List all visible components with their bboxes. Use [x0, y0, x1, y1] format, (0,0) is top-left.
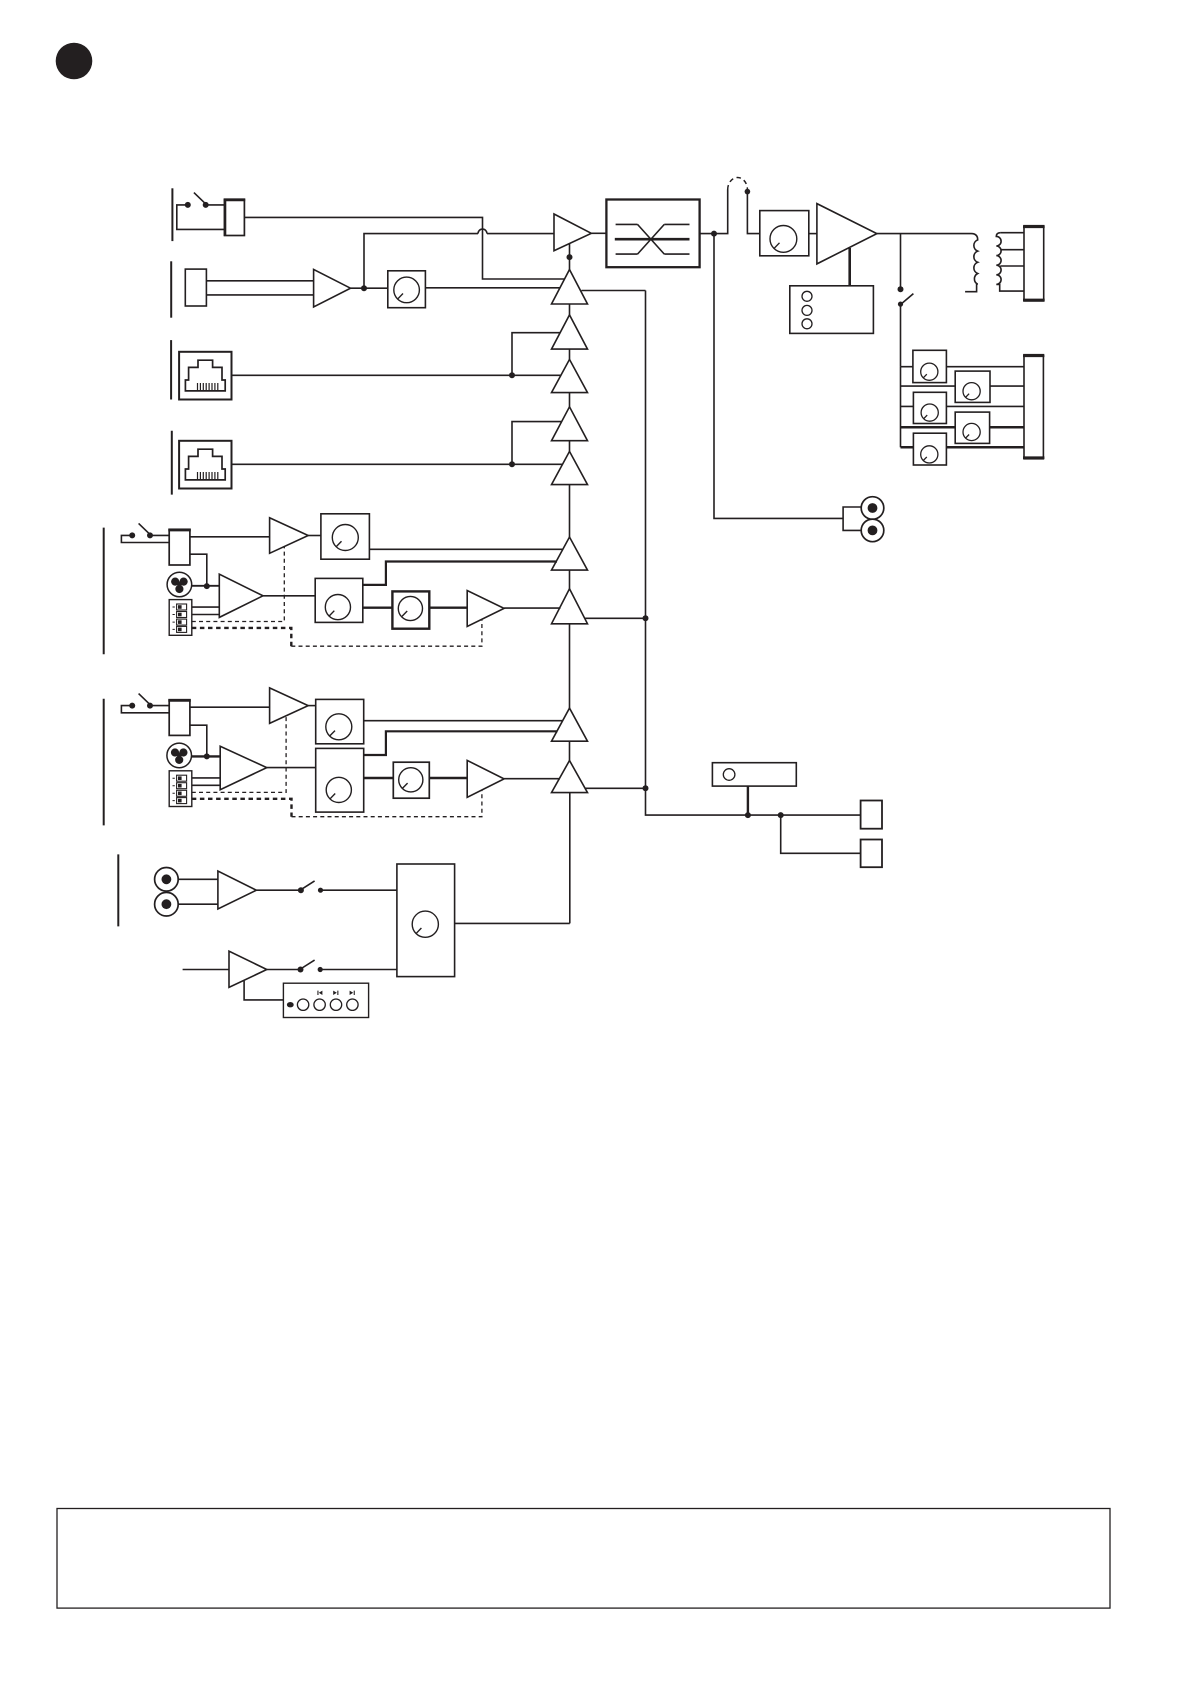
dip switch (mic2) [169, 771, 192, 807]
matrix top lines [616, 223, 690, 225]
wire (remote 2 to bus) [232, 463, 513, 465]
wire (sum amp1 right tap to bus) [582, 290, 646, 292]
switch (aux2) lever [301, 960, 315, 969]
wire (aux riser to chain bottom) [569, 793, 571, 924]
wire (jacks to aux amp) [178, 879, 218, 904]
switch S1 contact dots [185, 202, 191, 208]
page number dot [56, 43, 93, 80]
compressor amp (mic1) [219, 574, 263, 617]
wire (att row 4) [901, 426, 1025, 429]
wire (dip dashed control) [192, 717, 286, 793]
wire (switch to select box) [150, 705, 169, 707]
attenuator knob 1 [913, 350, 947, 382]
wire (eq tap step to summing amp 6) [363, 562, 557, 585]
wire (power amp to speaker line) [877, 233, 972, 235]
wire (dip dashed control) [192, 547, 284, 622]
wire (dip to comp amp) [192, 607, 220, 614]
wire (rec out feed) [714, 234, 843, 519]
wire (branch to terminal 2) [781, 815, 861, 853]
control terminal 2 [861, 840, 882, 868]
wire (preamp to knob) [308, 535, 321, 537]
phantom connector (mic1) [167, 572, 192, 597]
jumper link (dashed) [728, 178, 748, 190]
rec out jack 2 [861, 519, 884, 542]
phone input box [225, 199, 245, 235]
wire (switch2 to aux box) [320, 969, 397, 971]
wire (sum chain links) [569, 304, 571, 761]
eq knob box (mic1) [315, 578, 363, 622]
wire (eq tap step to summing amp 8) [364, 731, 558, 755]
remote jack 1 (RJ45) [179, 352, 231, 400]
wire (att row 3) [901, 405, 1025, 407]
switch (mic1) lever [139, 523, 150, 534]
control pad buttons [297, 999, 308, 1010]
wire (to summing amp 5) [512, 463, 563, 465]
master volume knob [760, 211, 809, 256]
matrix straight line [615, 238, 690, 241]
node (jumper end) [745, 189, 751, 195]
wire (mute bus) [646, 291, 861, 816]
transformer secondary coil [996, 233, 1024, 291]
wire (knob2 to eq amp bold) [429, 777, 467, 779]
wire (sum output up to PA amp) [569, 244, 571, 270]
wire (aux box output to chain) [455, 922, 570, 924]
eq knob box (mic2, tall) [316, 748, 364, 812]
wire (amp2 to control pad) [244, 981, 283, 1000]
switch (aux2) contacts [298, 967, 304, 973]
attenuator knob 4 [955, 412, 989, 443]
wire (secondary taps) [1000, 233, 1024, 266]
switch (aux1) lever [301, 881, 315, 890]
node (matrix output) [711, 231, 717, 237]
detector box [712, 763, 796, 786]
input terminal bar (remote in 2) [171, 431, 173, 495]
wire (switch to select box) [150, 534, 169, 536]
input terminal bar (program input) [170, 261, 172, 317]
input terminal bar (aux) [117, 854, 119, 926]
program input connector box [185, 269, 206, 306]
wire (detector link) [747, 786, 749, 815]
aux jack 1 [155, 868, 179, 892]
switch (mic2) lever [139, 694, 150, 705]
node (program split) [361, 285, 367, 291]
wire (select to preamp) [190, 706, 270, 708]
wire (amp to switch) [256, 889, 301, 891]
node (mic1 mix) [204, 583, 210, 589]
attenuator terminal box [1024, 355, 1043, 459]
compressor amp (mic2) [220, 746, 267, 789]
attenuator knob 5 [913, 433, 946, 465]
summing amp 8 [552, 708, 588, 741]
crosspoint matrix box [606, 200, 699, 268]
aux amp 2 [229, 951, 267, 987]
wire (sum amp7 right tap to bus) [585, 617, 646, 619]
node (terminal branch) [778, 812, 784, 818]
preamp (mic2) [270, 688, 309, 724]
attenuator knob 3 [913, 392, 946, 423]
wire (balanced pair) [206, 281, 313, 295]
wire (speaker switch branch) [900, 234, 902, 290]
wire (phantom to comp amp) [192, 755, 221, 757]
wire (preamp to knob) [308, 705, 316, 707]
summing amp 4 [552, 407, 588, 441]
node (detector junction) [745, 812, 751, 818]
switch (aux1) contacts [298, 887, 304, 893]
node (remote 2) [509, 461, 515, 467]
wire hop [478, 229, 487, 234]
power supply box [790, 286, 874, 334]
wire (eq to knob2 bold) [364, 777, 394, 779]
wire (jumper to master knob) [747, 190, 759, 234]
summing amp 9 [552, 761, 588, 793]
wire (aux 2 input) [183, 969, 229, 971]
switch (mic1) contacts [129, 532, 135, 538]
control pad power dot [287, 1002, 294, 1007]
wire (power supply link) [848, 248, 851, 286]
node (remote 1) [509, 372, 515, 378]
transformer primary coil [965, 234, 978, 292]
input terminal bar (telephone paging) [171, 188, 173, 241]
wire (matrix output) [700, 190, 728, 234]
aux select box [397, 864, 455, 977]
wire (knob2 to eq amp bold) [429, 607, 467, 609]
wire (comp amp to eq) [263, 595, 315, 597]
wire (att row 1) [901, 366, 1025, 368]
wire (knob to summing amp 6) [369, 548, 563, 550]
input terminal bar (mic 1) [103, 528, 105, 655]
aux amp 1 [218, 871, 256, 909]
node (mic2 mix) [204, 753, 210, 759]
wire (riser to summing amp 2) [512, 333, 561, 376]
summing amp 1 [552, 270, 588, 305]
wire (amp to node) [351, 287, 388, 289]
eq amp (mic1) [467, 591, 504, 627]
bottom note rectangle [57, 1509, 1110, 1609]
wire (att row 2) [901, 385, 1025, 387]
wire (dip dashed control bold) [192, 799, 292, 817]
wire (knob to summing amp 8) [364, 720, 563, 722]
dip switch (mic1) [169, 600, 192, 636]
wire (dashed to eq amp) [291, 620, 482, 647]
PA buffer amp [554, 214, 591, 251]
input terminal bar (mic 2) [103, 699, 105, 826]
wire (phone input loop) [177, 205, 225, 230]
wire (node riser with crossover hop to PA amp) [364, 234, 554, 289]
wire (dip to comp amp) [192, 778, 220, 785]
wire (dip dashed control bold) [192, 628, 291, 646]
wire (mic1 input pair) [121, 535, 169, 542]
preamp (mic1) [270, 518, 309, 554]
rec out jack 1 [861, 497, 884, 520]
wire (eq amp to summing amp 7) [504, 607, 560, 609]
control terminal 1 [861, 801, 882, 829]
wire (comp amp to eq) [267, 767, 316, 769]
summing amp 6 [552, 537, 588, 570]
input select box (mic2) [169, 700, 190, 736]
speaker terminal box [1024, 226, 1044, 301]
node (bus tap amp9) [643, 785, 649, 791]
summing amp 3 [552, 359, 588, 392]
input select box (mic1) [169, 529, 190, 565]
wire (buffer to matrix) [591, 232, 606, 234]
summing amp 2 [552, 315, 588, 349]
wire (knob to summing amp 1) [425, 287, 560, 289]
eq amp (mic2) [467, 760, 504, 797]
wire (switch to attenuators) [900, 304, 902, 367]
wire (switch to phone box) [206, 204, 225, 206]
volume knob (program) [388, 271, 426, 308]
control pad box [283, 983, 368, 1017]
knob 2 box (mic2) [393, 762, 429, 798]
phantom connector (mic2) [167, 743, 192, 768]
knob 2 box (mic1, bold) [392, 591, 429, 628]
wire (sum amp9 right tap to bus) [585, 787, 646, 789]
wire (phantom to comp amp) [192, 585, 220, 587]
wire (amp2 to switch) [267, 969, 301, 971]
wire (eq amp to summing amp 9) [504, 778, 560, 780]
rec out bracket [843, 507, 862, 530]
input terminal bar (remote in 1) [170, 340, 172, 399]
wire (select box aux tap) [190, 725, 207, 756]
volume knob (mic1) [321, 514, 370, 559]
wire (mic2 input pair) [121, 706, 169, 713]
wire (select box aux tap) [190, 554, 207, 586]
summing amp 7 [552, 589, 588, 624]
wire (remote 1 to bus) [232, 374, 513, 376]
wire (attenuator feed bus) [900, 367, 902, 448]
control pad icons [317, 991, 354, 995]
aux jack 2 [155, 892, 179, 916]
switch (speaker select) lever [901, 294, 913, 305]
node (bus tap amp7) [643, 615, 649, 621]
amplifier (program input) [314, 269, 351, 307]
wire (select to preamp) [190, 536, 270, 538]
switch (mic2) contacts [129, 703, 135, 709]
wire (eq to knob2 bold) [363, 607, 393, 609]
switch S1 lever [194, 193, 206, 204]
wire (riser to summing amp 4) [512, 422, 561, 465]
wire (switch to aux box) [321, 889, 397, 891]
wire (phone box to summing input) [244, 217, 564, 279]
remote jack 2 (RJ45) [179, 441, 231, 489]
wire (knob to power amp) [809, 233, 817, 235]
volume knob (mic2) [316, 699, 364, 743]
matrix cross lines [638, 224, 665, 254]
wire (dashed to eq amp) [292, 790, 482, 816]
summing amp 5 [552, 451, 588, 484]
node (sum output) [567, 254, 573, 260]
switch (speaker select) contacts [898, 286, 904, 292]
matrix bottom lines [616, 253, 690, 255]
attenuator knob 2 [955, 371, 990, 402]
wire (to summing amp 3) [512, 374, 562, 376]
wire (att row 5) [901, 446, 1025, 449]
power amplifier [817, 204, 877, 264]
